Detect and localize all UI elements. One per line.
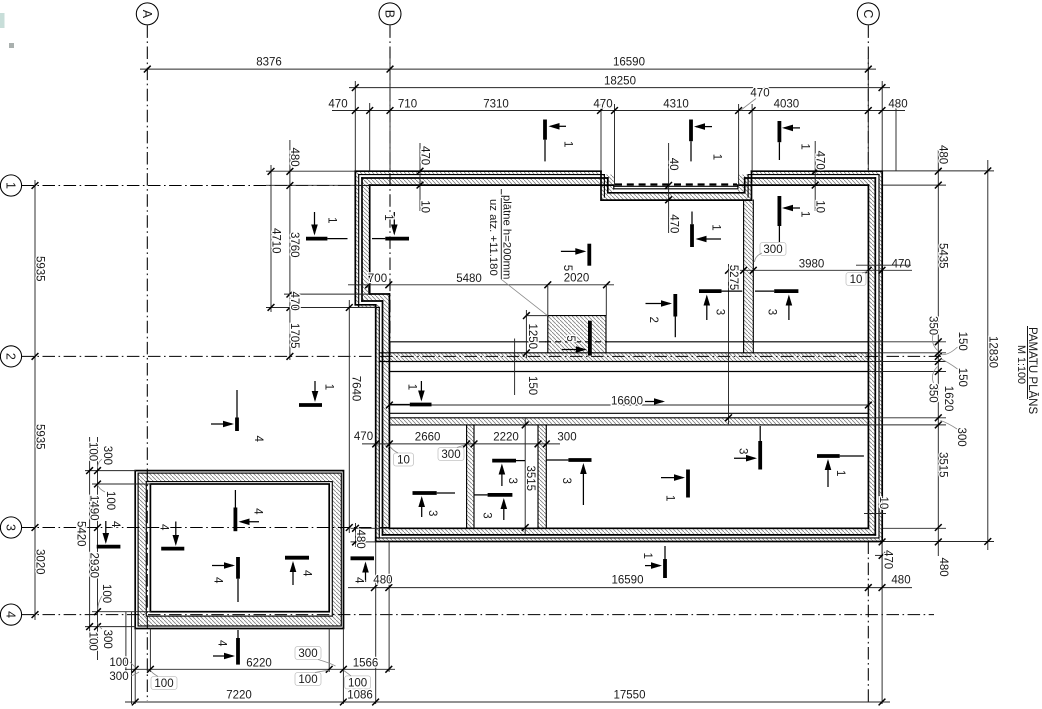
svg-text:1: 1 [641, 553, 653, 559]
svg-text:1250: 1250 [526, 324, 538, 350]
callout 10 lower wing [394, 453, 414, 466]
svg-text:5420: 5420 [74, 521, 86, 547]
section mark 1 (big room, x=828) [817, 454, 840, 458]
grid bubble B [379, 3, 401, 25]
svg-text:150: 150 [956, 368, 968, 387]
svg-text:6220: 6220 [246, 658, 272, 670]
svg-text:5: 5 [564, 335, 576, 341]
section mark 4 (garage left inside) [161, 547, 184, 551]
wall: top exterior, inner face line [370, 184, 869, 186]
extension lines above top wall [354, 81, 356, 171]
garage wall rectangles [135, 471, 343, 629]
wall: interior wall below notch edges [744, 200, 754, 353]
section mark 1 (wing inside, x=421) [410, 403, 432, 407]
svg-text:3: 3 [426, 510, 438, 516]
svg-text:A: A [140, 10, 154, 19]
svg-text:480: 480 [288, 148, 300, 167]
svg-text:3515: 3515 [937, 452, 949, 478]
svg-text:4: 4 [4, 611, 18, 618]
svg-text:5435: 5435 [937, 243, 949, 269]
svg-text:1: 1 [799, 211, 811, 217]
dim 4710 (x=271) [270, 165, 272, 312]
wall: top exterior, wall outer line [362, 177, 875, 179]
svg-text:480: 480 [937, 558, 949, 577]
svg-text:300: 300 [955, 428, 967, 447]
axis B vertical dash-dot [389, 25, 391, 356]
wall: axis-2 interior wall, upper edge line [389, 341, 868, 343]
svg-text:470: 470 [593, 99, 612, 111]
section mark 3 (big room, x=504 lower) [488, 493, 513, 497]
svg-text:2220: 2220 [493, 432, 519, 444]
svg-text:3: 3 [4, 524, 18, 531]
wall hatch: left wall bands [355, 171, 358, 305]
wall hatch: jog step bands [355, 305, 379, 308]
svg-text:1: 1 [382, 214, 394, 220]
svg-text:1: 1 [4, 182, 18, 189]
wall hatch: right wall bands [868, 178, 875, 535]
axis 4 horizontal dash-dot [21, 614, 934, 616]
svg-text:710: 710 [398, 99, 417, 111]
svg-text:16590: 16590 [613, 57, 645, 69]
wall: wing west vertical lines [376, 294, 390, 542]
wall hatch: axis-2 interior wall band [379, 353, 868, 362]
svg-text:10: 10 [397, 455, 410, 467]
wall: left exterior vertical lines [355, 171, 369, 305]
axis 3 horizontal dash-dot [21, 527, 390, 529]
svg-text:3020: 3020 [34, 549, 46, 575]
svg-text:4710: 4710 [270, 228, 282, 254]
dim 40/470 notch (x=668.6) [668, 143, 670, 233]
svg-text:480: 480 [888, 99, 907, 111]
svg-text:470: 470 [418, 146, 430, 165]
svg-text:10: 10 [813, 200, 825, 213]
svg-text:300: 300 [441, 449, 460, 461]
section mark 1 (big room, x=688) [686, 470, 690, 498]
grid bubble 4 [0, 604, 21, 625]
svg-text:3: 3 [714, 309, 726, 315]
section mark 4 (right of garage) [351, 556, 375, 560]
svg-text:100: 100 [100, 584, 112, 603]
dim chain 2660/2220/300 (y=443.9) [362, 443, 560, 445]
svg-text:1: 1 [406, 384, 418, 390]
svg-text:1: 1 [562, 141, 574, 147]
svg-text:100: 100 [298, 674, 317, 686]
svg-text:7310: 7310 [483, 99, 509, 111]
dim 1250 pad (x=526.4) [525, 310, 527, 358]
leader for notch 470 label [741, 99, 756, 111]
section mark 1 (right room, x=779) [778, 196, 782, 226]
wall: top exterior, footing inner line [359, 174, 879, 176]
svg-text:7220: 7220 [226, 690, 252, 702]
svg-text:470: 470 [288, 292, 300, 311]
svg-text:4: 4 [353, 577, 365, 584]
dim line 700/5480/2020 (y=284.8) [348, 284, 614, 286]
grid bubble 2 [0, 346, 21, 367]
svg-text:5935: 5935 [34, 256, 46, 282]
callout 10 at right wall [846, 273, 866, 286]
axis C vertical dash-dot upper [867, 25, 869, 171]
svg-text:470: 470 [882, 550, 894, 569]
svg-text:5480: 5480 [456, 273, 482, 285]
svg-text:4: 4 [212, 577, 224, 584]
svg-text:350: 350 [926, 316, 938, 335]
svg-text:1: 1 [664, 495, 676, 501]
svg-text:480: 480 [354, 530, 366, 549]
svg-text:C: C [861, 9, 875, 18]
section mark 5 (pad lower) [588, 321, 592, 356]
svg-text:100: 100 [348, 677, 367, 689]
svg-text:100: 100 [154, 678, 173, 690]
svg-text:480: 480 [937, 145, 949, 164]
dim 470 right wall (y=265) [856, 264, 911, 266]
svg-text:470: 470 [750, 88, 769, 100]
dim 470 bottom-right (x=882) [881, 542, 883, 581]
svg-text:18250: 18250 [604, 76, 636, 88]
svg-text:1: 1 [710, 224, 722, 230]
grid bubble A [136, 3, 158, 25]
callout 300 pier1 [438, 448, 464, 461]
section mark 3 (big room, x=583) [568, 458, 591, 462]
note plate h=200mm leader [500, 189, 502, 279]
wall: jog step lines [355, 294, 389, 305]
section mark 1 (middle room, x=692) [690, 224, 694, 247]
svg-text:300: 300 [763, 244, 782, 256]
callout 300 on notch wall [760, 243, 786, 256]
grid bubble 3 [0, 517, 21, 538]
dim chain top detail (y=110.5) [332, 110, 905, 112]
svg-text:300: 300 [557, 432, 576, 444]
svg-text:4: 4 [157, 524, 169, 531]
svg-text:300: 300 [109, 671, 128, 683]
svg-text:2930: 2930 [88, 553, 100, 579]
section mark 3 (corridor left of wall) [699, 289, 722, 293]
svg-text:3980: 3980 [799, 259, 825, 271]
wall hatch: bottom wall bands [383, 528, 876, 535]
dim chain 480/3760/470/1705 (x=289.9) [289, 140, 291, 360]
svg-text:5275: 5275 [727, 265, 739, 291]
column pad outline on axis 2 [548, 316, 606, 353]
dim line 18250 (y=87.6) [349, 87, 890, 89]
section mark 1 (top, x=691) [689, 120, 693, 142]
section mark 4 (below garage) [237, 630, 239, 638]
section mark 2 (corridor) [673, 294, 677, 317]
section mark 1 (top, x=545) [543, 120, 547, 140]
axis C vertical dash-dot lower [867, 542, 869, 705]
dim 480 wing bottom wall (x=355.5) [355, 523, 357, 547]
dim 5275 (x=728.5) [728, 264, 730, 424]
dim chain garage left (x=89.6 and x=97.5) [89, 437, 91, 650]
svg-text:16600: 16600 [611, 396, 643, 408]
extension lines below building [375, 542, 377, 705]
svg-text:10: 10 [850, 274, 863, 286]
dim 470/10 top-right room (x=815.2) [814, 141, 816, 211]
extension lines around garage [85, 470, 136, 472]
svg-text:3515: 3515 [524, 466, 536, 492]
svg-text:1: 1 [326, 217, 338, 223]
dim 470/10 top-left room (x=420) [419, 143, 421, 211]
svg-text:2660: 2660 [415, 432, 441, 444]
svg-text:12830: 12830 [986, 336, 998, 368]
wall: pier 1 edges [467, 425, 474, 528]
section mark 4 (above garage) [236, 390, 238, 418]
dim 7640 (x=349.3) [348, 300, 350, 533]
svg-text:4: 4 [252, 508, 264, 515]
svg-text:B: B [383, 10, 397, 18]
svg-text:4030: 4030 [774, 99, 800, 111]
dim 150 below axis2 band [514, 339, 516, 396]
section mark 1 (left inside room) [385, 237, 409, 241]
svg-text:480: 480 [373, 575, 392, 587]
extension lines left of top wall [266, 170, 355, 172]
svg-text:M 1:100: M 1:100 [1015, 345, 1027, 384]
svg-text:3: 3 [737, 448, 749, 454]
svg-text:100: 100 [109, 657, 128, 669]
notch 40mm dashed plate edge [615, 183, 737, 185]
hatch: column pad on axis 2 [548, 316, 606, 353]
svg-text:7640: 7640 [349, 376, 361, 402]
svg-text:2020: 2020 [564, 273, 590, 285]
svg-text:10: 10 [418, 200, 430, 213]
svg-text:1: 1 [799, 143, 811, 149]
svg-text:2: 2 [4, 353, 18, 360]
svg-text:1566: 1566 [353, 658, 379, 670]
wall hatch: lower interior wall band [389, 418, 868, 425]
wall hatch: interior wall below notch [744, 200, 754, 353]
svg-text:470: 470 [667, 214, 679, 233]
dim 12830 outer right (x=987.8) [987, 160, 989, 550]
extension lines right of building [883, 170, 994, 172]
svg-text:470: 470 [354, 431, 373, 443]
svg-text:5: 5 [561, 265, 573, 271]
dim line 16600 (y=405) [389, 404, 868, 406]
svg-text:150: 150 [956, 332, 968, 351]
section mark 1 (left outside room) [306, 237, 327, 241]
callouts garage bottom [151, 677, 177, 690]
svg-text:40: 40 [667, 158, 679, 171]
svg-text:1086: 1086 [347, 690, 373, 702]
dim chain left axes 5935/5935/3020 (x=35) [34, 180, 36, 620]
svg-text:17550: 17550 [614, 690, 646, 702]
dim line 480/16590/480 (y=587.6) [348, 587, 912, 589]
svg-text:1: 1 [323, 384, 335, 390]
svg-text:4: 4 [301, 570, 313, 577]
wall hatch: pier 2 [538, 425, 546, 528]
wall hatch: wing west wall bands [376, 305, 380, 542]
section mark 3 (corridor right of wall) [774, 289, 798, 293]
section mark 5 (pad upper) [587, 244, 591, 266]
svg-text:4: 4 [216, 640, 228, 647]
svg-text:1705: 1705 [288, 323, 300, 349]
extension lines left of wing bottom [351, 527, 390, 529]
leaders right chain [932, 333, 957, 429]
svg-text:300: 300 [101, 630, 113, 649]
section mark 1 (below building bottom) [663, 559, 667, 578]
wall: top exterior, outer footing line [355, 170, 882, 172]
svg-text:1490: 1490 [88, 495, 100, 521]
svg-text:3: 3 [506, 478, 518, 484]
axis 1 horizontal dash-dot [21, 185, 369, 187]
svg-text:150: 150 [526, 376, 538, 395]
wall: right exterior vertical lines [868, 171, 882, 541]
svg-text:8376: 8376 [256, 57, 282, 69]
svg-text:1: 1 [834, 470, 846, 476]
grid bubble C [857, 3, 879, 25]
section mark 4 (garage center) [236, 557, 240, 579]
svg-text:16590: 16590 [612, 575, 644, 587]
dim chain right 480/5435/350/150/150/350/1620/300/3515/480 (x=938.3) [937, 150, 939, 556]
svg-text:480: 480 [891, 575, 910, 587]
svg-text:470: 470 [892, 259, 911, 271]
dim line 7220/1086/17550 (y=702) [125, 701, 890, 703]
svg-text:3: 3 [766, 309, 778, 315]
svg-text:5935: 5935 [34, 424, 46, 450]
svg-text:3760: 3760 [288, 232, 300, 258]
section mark 4 (garage left outside) [97, 545, 121, 549]
wall hatch: garage wall ring [138, 473, 341, 626]
svg-text:300: 300 [298, 648, 317, 660]
svg-text:3: 3 [481, 512, 493, 518]
section mark 1 (top, x=779) [778, 121, 782, 142]
section mark 3 (big room, x=760) [758, 441, 762, 470]
wall: notch inner double line [614, 186, 738, 189]
svg-text:300: 300 [101, 446, 113, 465]
svg-text:350: 350 [926, 384, 938, 403]
wall hatch: notch recess band [601, 193, 752, 200]
wall: lower interior wall (16600) edges [389, 413, 868, 425]
section mark 4 (garage right) [285, 556, 309, 560]
section mark 3 (big room, x=422) [413, 491, 437, 495]
svg-text:3: 3 [560, 478, 572, 484]
svg-text:470: 470 [813, 151, 825, 170]
section mark 4 (garage top inside) [234, 490, 236, 508]
svg-text:2: 2 [647, 317, 659, 323]
wall: axis-2 interior wall band edges [379, 353, 868, 372]
wall hatch: top wall outer thin band [138, 171, 882, 626]
svg-text:4: 4 [109, 521, 121, 528]
svg-text:plātne h=200mm: plātne h=200mm [501, 195, 513, 279]
wall: bottom exterior lines [376, 528, 883, 541]
svg-text:4310: 4310 [663, 99, 689, 111]
wall: notch recess outline [601, 171, 752, 200]
svg-text:470: 470 [328, 99, 347, 111]
section mark 1 (wing outside, x=315) [299, 403, 322, 407]
svg-text:100: 100 [104, 491, 116, 510]
svg-text:1: 1 [711, 154, 723, 160]
wall hatch: pier 1 [467, 425, 474, 528]
grid bubble 1 [0, 175, 21, 196]
dim line garage 6220/1566 (y=669.3) [125, 668, 395, 670]
svg-text:700: 700 [368, 273, 387, 285]
svg-text:1620: 1620 [942, 386, 954, 412]
svg-text:100: 100 [86, 632, 98, 651]
dim 3515 left (x=525.2) [524, 418, 526, 534]
svg-text:4: 4 [252, 436, 264, 443]
wall: pier 2 edges [538, 425, 546, 528]
scan artifact teal smudge [0, 13, 5, 28]
wall hatch: top wall main band [362, 178, 608, 185]
dim line 8376 / 16590 (top, y=69) [140, 68, 876, 70]
dim line 3980/470 (y=270.3) [736, 269, 912, 271]
axis A vertical dash-dot [146, 25, 148, 701]
section mark 3 (big room, x=502 upper) [492, 459, 516, 463]
axis 2 horizontal dash-dot [21, 355, 941, 357]
svg-text:uz atz. +11.180: uz atz. +11.180 [487, 199, 499, 276]
svg-text:100: 100 [86, 442, 98, 461]
svg-text:10: 10 [877, 497, 889, 510]
